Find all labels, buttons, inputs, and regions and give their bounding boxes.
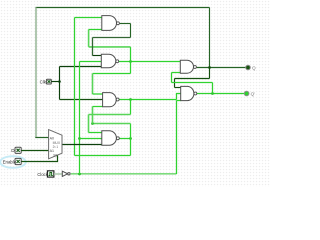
- wire G4out up vertical (130.5,138.5)-(130.5,123.5): [130, 124, 132, 139]
- MUX body trapezoid: [49, 130, 62, 159]
- wire G2out up vertical (130.5,61.5)-(130.5,46.9): [130, 47, 132, 62]
- svg-text:Clk: Clk: [40, 79, 47, 84]
- junction dot G4out (130.5,138.5): [129, 137, 132, 140]
- wire G1out vertical (92.5,37.5)-(92.5,55.5): [92, 38, 94, 56]
- wire G4out upper horizontal (130.5,123.5)-(92.5,123.5): [93, 123, 131, 125]
- wire G6 in3 stub (176.5,100.5)-(181.2,100.5): [177, 100, 182, 102]
- wire G4out (120,138.5)-(130.5,138.5): [120, 138, 131, 140]
- svg-text:S0: S0: [53, 153, 57, 157]
- wire G4 in2 stub (79.5,138.5)-(102.2,138.5): [80, 138, 103, 140]
- svg-text:Enable: Enable: [3, 159, 17, 164]
- junction dot inverted-clock (79.5,174): [78, 173, 81, 176]
- wire Qbar up vertical (171.5,82.5)-(171.5,72.5): [171, 73, 173, 83]
- wire G4out down vertical (130.5,138.5)-(130.5,155.5): [130, 139, 132, 156]
- wire Q-feedback to MUX A0 (36,137.5)-(48.6,137.5): [35, 137, 48, 139]
- wire G6 in1 stub (174.5,87.5)-(181,87.5): [175, 87, 182, 89]
- wire G4 in1 stub (88.5,132.5)-(102.2,132.5): [89, 132, 103, 134]
- output pin Q: [246, 65, 256, 70]
- gate G3 NAND 3-input: [103, 93, 120, 107]
- wire inverted-clock right vertical (176.5,174)-(176.5,100.5): [176, 101, 178, 175]
- wire Qbar cross horizontal (212.5,82.5)-(171.5,82.5): [172, 82, 213, 84]
- wire G2 in1 stub (92.5,55.5)-(101.7,55.5): [93, 55, 102, 57]
- wire G2out to G1 vertical (88.6,46.9)-(88.6,29.5): [88, 30, 90, 47]
- wire G3out corner up to G6 in2 (176.5,99.5)-(176.5,93.5)-(181.2,93.5): [177, 94, 182, 100]
- junction dot Clk (59.5,81.5): [58, 80, 61, 83]
- wire G1 in1 stub (74.5,17.5)-(102.2,17.5): [75, 17, 103, 19]
- junction dot G4out to G3 in3 (92.5,123.5): [91, 122, 94, 125]
- wire Q-feedback top horizontal (36,8)-(210,8): [36, 7, 210, 9]
- wire D to MUX A1 (21.2,150.5)-(48.6,150.5): [21, 150, 48, 152]
- svg-text:Q': Q': [251, 92, 256, 97]
- wire Clk to G3 in2 (59.5,99.5)-(103,99.5): [60, 99, 104, 101]
- wire G3out (118.9,99.5)-(176.5,99.5): [119, 99, 176, 101]
- output pin Qbar: [244, 91, 255, 96]
- wire MUX output to G4 in3 (61,144.5)-(102.2,144.5): [61, 144, 102, 146]
- wire G5 in2 stub (171.5,72.5)-(180.8,72.5): [172, 72, 181, 74]
- gate G6 NAND output-Qbar: [181, 86, 197, 100]
- svg-text:Clock: Clock: [37, 172, 48, 177]
- gate G2 NAND 3-input: [101, 54, 118, 67]
- wire Q-feedback into G6 in1 vertical (174.5,78.5)-(174.5,87.5): [174, 79, 176, 88]
- wire Enable to MUX select (21.2,161.5)-(57.5,161.5)-(57.5,154.5): [21, 155, 57, 162]
- wire G2out to G3 vertical (92.5,73.5)-(92.5,94): [92, 74, 94, 95]
- wire G3 in1 stub (92.5,94)-(103,94): [93, 93, 104, 95]
- wire G3 in3 vertical (92.5,123.5)-(92.5,106.5): [92, 107, 94, 124]
- wire Q-feedback right vertical (209.5,7.5)-(209.5,67.5): [209, 8, 211, 68]
- junction dot G2out (130.5,61.5): [129, 60, 132, 63]
- junction dot Q feedback tap (209.5,67.5): [208, 66, 211, 69]
- wire Q output (197.2,67.5)-(245.7,67.5): [197, 67, 246, 69]
- wire inverted-clock left vertical (79.5,174)-(79.5,61.5): [79, 62, 81, 175]
- wire G2out upper horizontal (130.5,46.9)-(88.6,46.9): [89, 46, 131, 48]
- wire Clk vertical (59.5,66.5)-(59.5,99.5): [59, 67, 61, 100]
- wire inverted-clock long bottom (70.8,174)-(176.5,174): [71, 173, 177, 175]
- wire Q-feedback cross horizontal (209.5,78.5)-(174.5,78.5): [175, 78, 210, 80]
- wire Clk pin to junction (51.3,81.5)-(59.5,81.5): [51, 81, 59, 83]
- wire G1out vertical (130.5,23.5)-(130.5,37.5): [130, 24, 132, 38]
- wire G3 in3 stub (92.5,106.5)-(103,106.5): [93, 106, 104, 108]
- wire G2 in2 stub (79.5,61.5)-(101.7,61.5): [80, 61, 102, 63]
- gate G1 NAND 2-input: [102, 16, 120, 31]
- junction dot G3out (130.5,99.5): [129, 98, 132, 101]
- svg-text:2¹:1: 2¹:1: [53, 145, 59, 149]
- svg-text:Q: Q: [252, 65, 256, 70]
- wire Qbar branch vertical (212.5,93.5)-(212.5,82.5): [212, 83, 214, 94]
- wire G3out down vertical (130.5,99.5)-(130.5,114.5): [130, 100, 132, 115]
- wire G4out bottom horizontal (130.5,155.5)-(74.5,155.5): [75, 155, 131, 157]
- wire G1 in2 stub (88.6,29.5)-(102.2,29.5): [89, 29, 103, 31]
- wire Q-feedback left vertical (36,8)-(36,137.5): [35, 8, 37, 138]
- wire G4out tall left vertical (74.5,155.5)-(74.5,17.5): [74, 18, 76, 156]
- gate G4 NAND 3-input: [102, 131, 120, 146]
- wire Qbar output (197.5,93.5)-(244.3,93.5): [197, 93, 244, 95]
- wire clock to inverter (54,174)-(62.3,174): [54, 173, 62, 175]
- clock component: [47, 171, 54, 177]
- wire G3out to G4 vertical (88.5,114.5)-(88.5,132.5): [88, 115, 90, 133]
- junction dot Qbar branch (212.5,93.5): [211, 92, 214, 95]
- wire G2out lower horizontal (130.5,73.5)-(92.5,73.5): [93, 73, 131, 75]
- selection halo around Enable pin: [0, 156, 26, 168]
- Clk pin square: [46, 79, 51, 84]
- inverter NOT gate: [62, 171, 70, 176]
- wire G3out horizontal (130.5,114.5)-(88.5,114.5): [89, 114, 131, 116]
- gate G5 NAND output-Q: [180, 60, 196, 73]
- junction dot inverted-clock G4 branch (79.5,138.5): [78, 137, 81, 140]
- wire Q-feedback down segment (209.5,67.5)-(209.5,78.5): [209, 68, 211, 79]
- wire G1out horizontal (130.5,37.5)-(92.5,37.5): [93, 37, 131, 39]
- svg-text:A0: A0: [50, 136, 54, 140]
- wire G2out down vertical (130.5,61.5)-(130.5,73.5): [130, 62, 132, 74]
- D input pin square: [15, 147, 21, 153]
- wire G2out to G5 in1 (118.9,61.5)-(180.8,61.5): [119, 61, 181, 63]
- Enable input pin square: [15, 158, 21, 164]
- wire G1 output (120.3,23.5)-(130.5,23.5): [120, 23, 131, 25]
- wire Clk to G2 in3 (59.5,66.5)-(101.7,66.5): [60, 66, 102, 68]
